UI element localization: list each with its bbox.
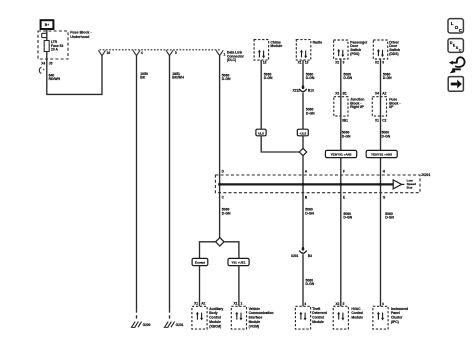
svg-text:A2: A2 (201, 301, 205, 305)
wire ground G201 (169, 56, 171, 310)
svg-text:A2: A2 (382, 91, 386, 95)
svg-text:X1: X1 (194, 301, 198, 305)
svg-text:D-GN: D-GN (264, 76, 273, 80)
svg-text:Communication: Communication (249, 311, 274, 315)
svg-text:Module: Module (312, 320, 324, 324)
label 5060 D-GN (below bus, serial data) (222, 208, 231, 216)
svg-text:(XBCM): (XBCM) (209, 324, 221, 328)
splice S2 (diamond) (216, 238, 224, 246)
svg-text:Interface: Interface (249, 316, 263, 320)
svg-text:Radio: Radio (313, 40, 322, 44)
label 5060 D-GN (below bus, radio branch) (305, 208, 314, 216)
svg-text:Module: Module (209, 320, 221, 324)
svg-text:Deterrent: Deterrent (312, 311, 328, 315)
svg-text:D-GN: D-GN (306, 111, 315, 115)
svg-text:E: E (343, 195, 345, 199)
label 5060 D-GN (PDS) (343, 72, 352, 80)
icon DESC (448, 39, 463, 53)
instrument panel cluster (IPC) (373, 306, 388, 329)
svg-text:Cluster: Cluster (391, 316, 403, 320)
inline connector X201 pin B3 (291, 247, 312, 258)
fuse element hook (42, 33, 47, 37)
svg-text:BK: BK (140, 76, 145, 80)
svg-text:Module: Module (270, 44, 282, 48)
svg-text:1: 1 (241, 301, 243, 305)
label 5060 D-GN (DLC) (222, 73, 231, 81)
bus terminator triangle (393, 180, 404, 189)
svg-text:9: 9 (343, 61, 345, 65)
svg-text:JX201: JX201 (421, 173, 430, 177)
wire X201 to theft module (302, 254, 304, 306)
driver door switch (DDS) (373, 40, 387, 59)
svg-text:Control: Control (351, 311, 363, 315)
svg-text:X3: X3 (335, 91, 339, 95)
svg-text:16: 16 (107, 51, 111, 55)
label 5060 D-GN (below bus, HVAC branch) (343, 212, 352, 220)
svg-text:X2: X2 (335, 302, 339, 306)
svg-text:X1: X1 (375, 118, 379, 122)
DLC pin 4 (133, 50, 143, 55)
label Junction Block - Right I/P (350, 97, 364, 109)
fuse block I/P lower pins X1 C2 (375, 118, 387, 122)
svg-text:Body: Body (209, 311, 217, 315)
wire chime option box to splice S1 (261, 136, 299, 152)
theft deterrent control module (295, 306, 310, 329)
svg-text:D-GN: D-GN (305, 212, 314, 216)
svg-text:C: C (459, 49, 462, 53)
svg-text:(VCIM): (VCIM) (249, 324, 259, 328)
HVAC pins X2 5 (335, 302, 344, 306)
svg-text:Instrument: Instrument (391, 307, 409, 311)
label 5060 D-GN (below bus, IPC branch) (385, 212, 394, 220)
svg-text:G201: G201 (176, 323, 184, 327)
wire option box to splice S1 (302, 136, 304, 149)
svg-text:Module: Module (249, 320, 261, 324)
icon LOC (448, 19, 463, 34)
option box YE9/Y91 +AN3 (left) (325, 150, 356, 157)
svg-text:D-GN: D-GN (383, 76, 392, 80)
bus node dot (radio branch) (302, 183, 305, 186)
HVAC control module (333, 306, 348, 329)
chime module (254, 40, 269, 61)
svg-text:D-GN: D-GN (382, 135, 391, 139)
wire radio to X212 (302, 60, 304, 87)
svg-text:RD/WH: RD/WH (49, 77, 61, 81)
wire Except to XBCM (199, 266, 201, 307)
svg-text:9: 9 (382, 61, 384, 65)
svg-text:4: 4 (304, 302, 306, 306)
PDS pins X2 9 (335, 61, 344, 65)
label Passenger Door Switch (PDS) (350, 40, 368, 56)
svg-text:X4: X4 (375, 91, 379, 95)
svg-text:13: 13 (305, 61, 309, 65)
XBCM pins X1 A2 (194, 301, 205, 305)
bus node dot (serial data) (218, 183, 221, 186)
label Fuse Block - Underhood (70, 31, 92, 39)
wire serial data DLC pin1 down (219, 56, 221, 238)
svg-text:I/P: I/P (389, 105, 394, 109)
label Low Speed Bus (407, 179, 416, 190)
DLC pin 1 (216, 50, 226, 56)
svg-text:X201: X201 (291, 254, 299, 258)
svg-text:-UL5: -UL5 (299, 132, 306, 136)
fuse F53 LTR 20 A (44, 40, 63, 52)
label Driver Door Switch (DDS) (389, 40, 400, 56)
svg-text:X1: X1 (298, 61, 302, 65)
DDS lower pins X4 A2 (375, 91, 387, 95)
svg-text:4: 4 (141, 51, 143, 55)
label Auxiliary Body Control Module (XBCM) (209, 307, 223, 329)
inline connector X212 pin B13 (292, 85, 314, 92)
icon next-page arrow (448, 77, 463, 92)
wire PDS to junction block (340, 59, 342, 97)
svg-text:B1: B1 (343, 91, 347, 95)
low speed bus line (220, 183, 394, 185)
svg-text:5: 5 (343, 302, 345, 306)
bus node dot (DDS branch) (379, 183, 382, 186)
svg-text:13: 13 (263, 61, 267, 65)
fuse block underhood (dashed) (38, 31, 68, 59)
svg-text:(PDS): (PDS) (350, 52, 359, 56)
label 5060 D-GN (below X212) (306, 107, 315, 115)
svg-text:L: L (451, 21, 454, 26)
label 5060 D-GN (theft) (306, 278, 315, 286)
wire DDS to fuse block I/P (380, 59, 382, 97)
passenger door switch (PDS) (334, 40, 348, 59)
wire splice S2 left branch (200, 242, 216, 259)
svg-text:J5: J5 (49, 62, 53, 66)
svg-text:D-GN: D-GN (385, 216, 394, 220)
label 640 RD/WH (49, 73, 61, 81)
icon swap arrows (449, 57, 465, 73)
option box UL5 (256, 129, 266, 136)
svg-text:D-GN: D-GN (222, 212, 231, 216)
inline connector half symbol (39, 67, 44, 73)
svg-text:C2: C2 (382, 118, 386, 122)
svg-text:Module: Module (351, 316, 363, 320)
svg-text:Bus: Bus (407, 186, 413, 190)
option box Except (192, 258, 208, 265)
svg-text:B13: B13 (308, 88, 314, 92)
svg-text:3B1: 3B1 (342, 118, 348, 122)
svg-text:D-GN: D-GN (343, 216, 352, 220)
wire splice S1 to bus (302, 156, 304, 249)
svg-text:YE9/Y91 +AN3: YE9/Y91 +AN3 (330, 153, 351, 157)
svg-text:D-GN: D-GN (306, 76, 315, 80)
svg-text:X1: X1 (233, 301, 237, 305)
label 5060 D-GN (below JB) (342, 131, 351, 139)
wire option box to IPC (380, 158, 382, 307)
svg-text:BK/WH: BK/WH (172, 76, 184, 80)
DLC pin 5 (166, 50, 177, 55)
radio (296, 40, 311, 61)
ground G200 (131, 322, 151, 328)
label Vehicle Communication Interface Module (VCIM) (249, 307, 274, 329)
DDS pins X2 9 (375, 61, 384, 65)
svg-text:4: 4 (382, 302, 384, 306)
svg-text:X2: X2 (335, 61, 339, 65)
wire Y91 to VCIM (238, 266, 240, 307)
wire through junction block (340, 97, 342, 151)
label Chime Module (270, 40, 282, 48)
power feed B+ (41, 20, 54, 29)
svg-text:F: F (343, 170, 345, 174)
svg-text:(DDS): (DDS) (389, 52, 398, 56)
pins X4 / J5 (41, 62, 52, 66)
label 5060 D-GN (chime) (264, 72, 273, 80)
DLC connector face (dashed) (100, 49, 220, 51)
svg-text:D-GN: D-GN (343, 76, 352, 80)
svg-text:D-GN: D-GN (342, 135, 351, 139)
radio pins X1 13 (298, 61, 309, 65)
wire 640 RD/WH fuse to DLC pin16 (47, 52, 102, 95)
junction block - right I/P (334, 97, 348, 116)
fuse block - I/P (372, 97, 386, 116)
wire splice S2 right branch (224, 242, 239, 259)
ground G201 (164, 322, 184, 328)
splice S1 (diamond) (299, 148, 306, 155)
svg-text:UL5: UL5 (258, 132, 264, 136)
svg-text:D-GN: D-GN (222, 77, 231, 81)
wire B+ to fuse (46, 29, 48, 41)
vehicle communication interface module (VCIM) (231, 306, 246, 329)
svg-text:HVAC: HVAC (351, 307, 361, 311)
svg-text:Theft: Theft (312, 307, 321, 311)
wire chime to splice (260, 60, 262, 129)
label 1050 BK (140, 72, 148, 80)
svg-text:20 A: 20 A (51, 48, 58, 52)
svg-text:Except: Except (195, 261, 205, 265)
option box -UL5 (297, 129, 308, 136)
option box YE9/Y91 +AN3 (right) (366, 150, 397, 157)
svg-text:1: 1 (224, 52, 226, 56)
VCIM pins X1 1 (233, 301, 242, 305)
bus node dot (PDS branch) (339, 183, 342, 186)
label 1851 BK/WH (172, 72, 184, 80)
wire through fuse block I/P (380, 97, 382, 151)
svg-text:X2: X2 (375, 61, 379, 65)
option box Y91 +UE1 (228, 258, 249, 265)
svg-text:X212: X212 (292, 88, 300, 92)
svg-text:Auxiliary: Auxiliary (209, 307, 223, 311)
svg-text:X4: X4 (41, 62, 45, 66)
label Theft Deterrent Control Module (312, 307, 328, 324)
label Data Link Connector (DLC) (227, 50, 245, 62)
svg-text:Control: Control (209, 316, 221, 320)
label 5060 D-GN (below FB) (382, 131, 391, 139)
svg-text:YE9/Y91 +AN3: YE9/Y91 +AN3 (371, 153, 392, 157)
svg-text:Y91 +UE1: Y91 +UE1 (231, 261, 245, 265)
low speed bus enclosure (dashed) (215, 175, 420, 193)
svg-text:Vehicle: Vehicle (249, 307, 261, 311)
svg-text:G200: G200 (143, 323, 151, 327)
DLC pin 16 (98, 50, 110, 55)
svg-text:Underhood: Underhood (70, 35, 89, 39)
label 5060 D-GN (DDS) (383, 72, 392, 80)
svg-text:B+: B+ (45, 23, 49, 27)
wire X212 to option box (302, 93, 304, 130)
label HVAC Control Module (351, 307, 363, 320)
wire ground G200 (136, 56, 138, 310)
svg-text:(IPC): (IPC) (391, 320, 399, 324)
svg-text:D-GN: D-GN (306, 282, 315, 286)
svg-text:(DLC): (DLC) (227, 58, 236, 62)
PDS lower pins X3 B1 (335, 91, 347, 95)
wire option box to HVAC (340, 158, 342, 307)
svg-text:Panel: Panel (391, 311, 400, 315)
auxiliary body control module (XBCM) (192, 306, 207, 329)
svg-text:B3: B3 (308, 254, 312, 258)
label Instrument Panel Cluster (IPC) (391, 307, 409, 324)
label Fuse Block - I/P (389, 97, 400, 109)
svg-text:Right I/P: Right I/P (350, 105, 364, 109)
svg-text:Control: Control (312, 316, 324, 320)
label 5060 D-GN (radio) (306, 72, 315, 80)
svg-text:5: 5 (175, 51, 177, 55)
